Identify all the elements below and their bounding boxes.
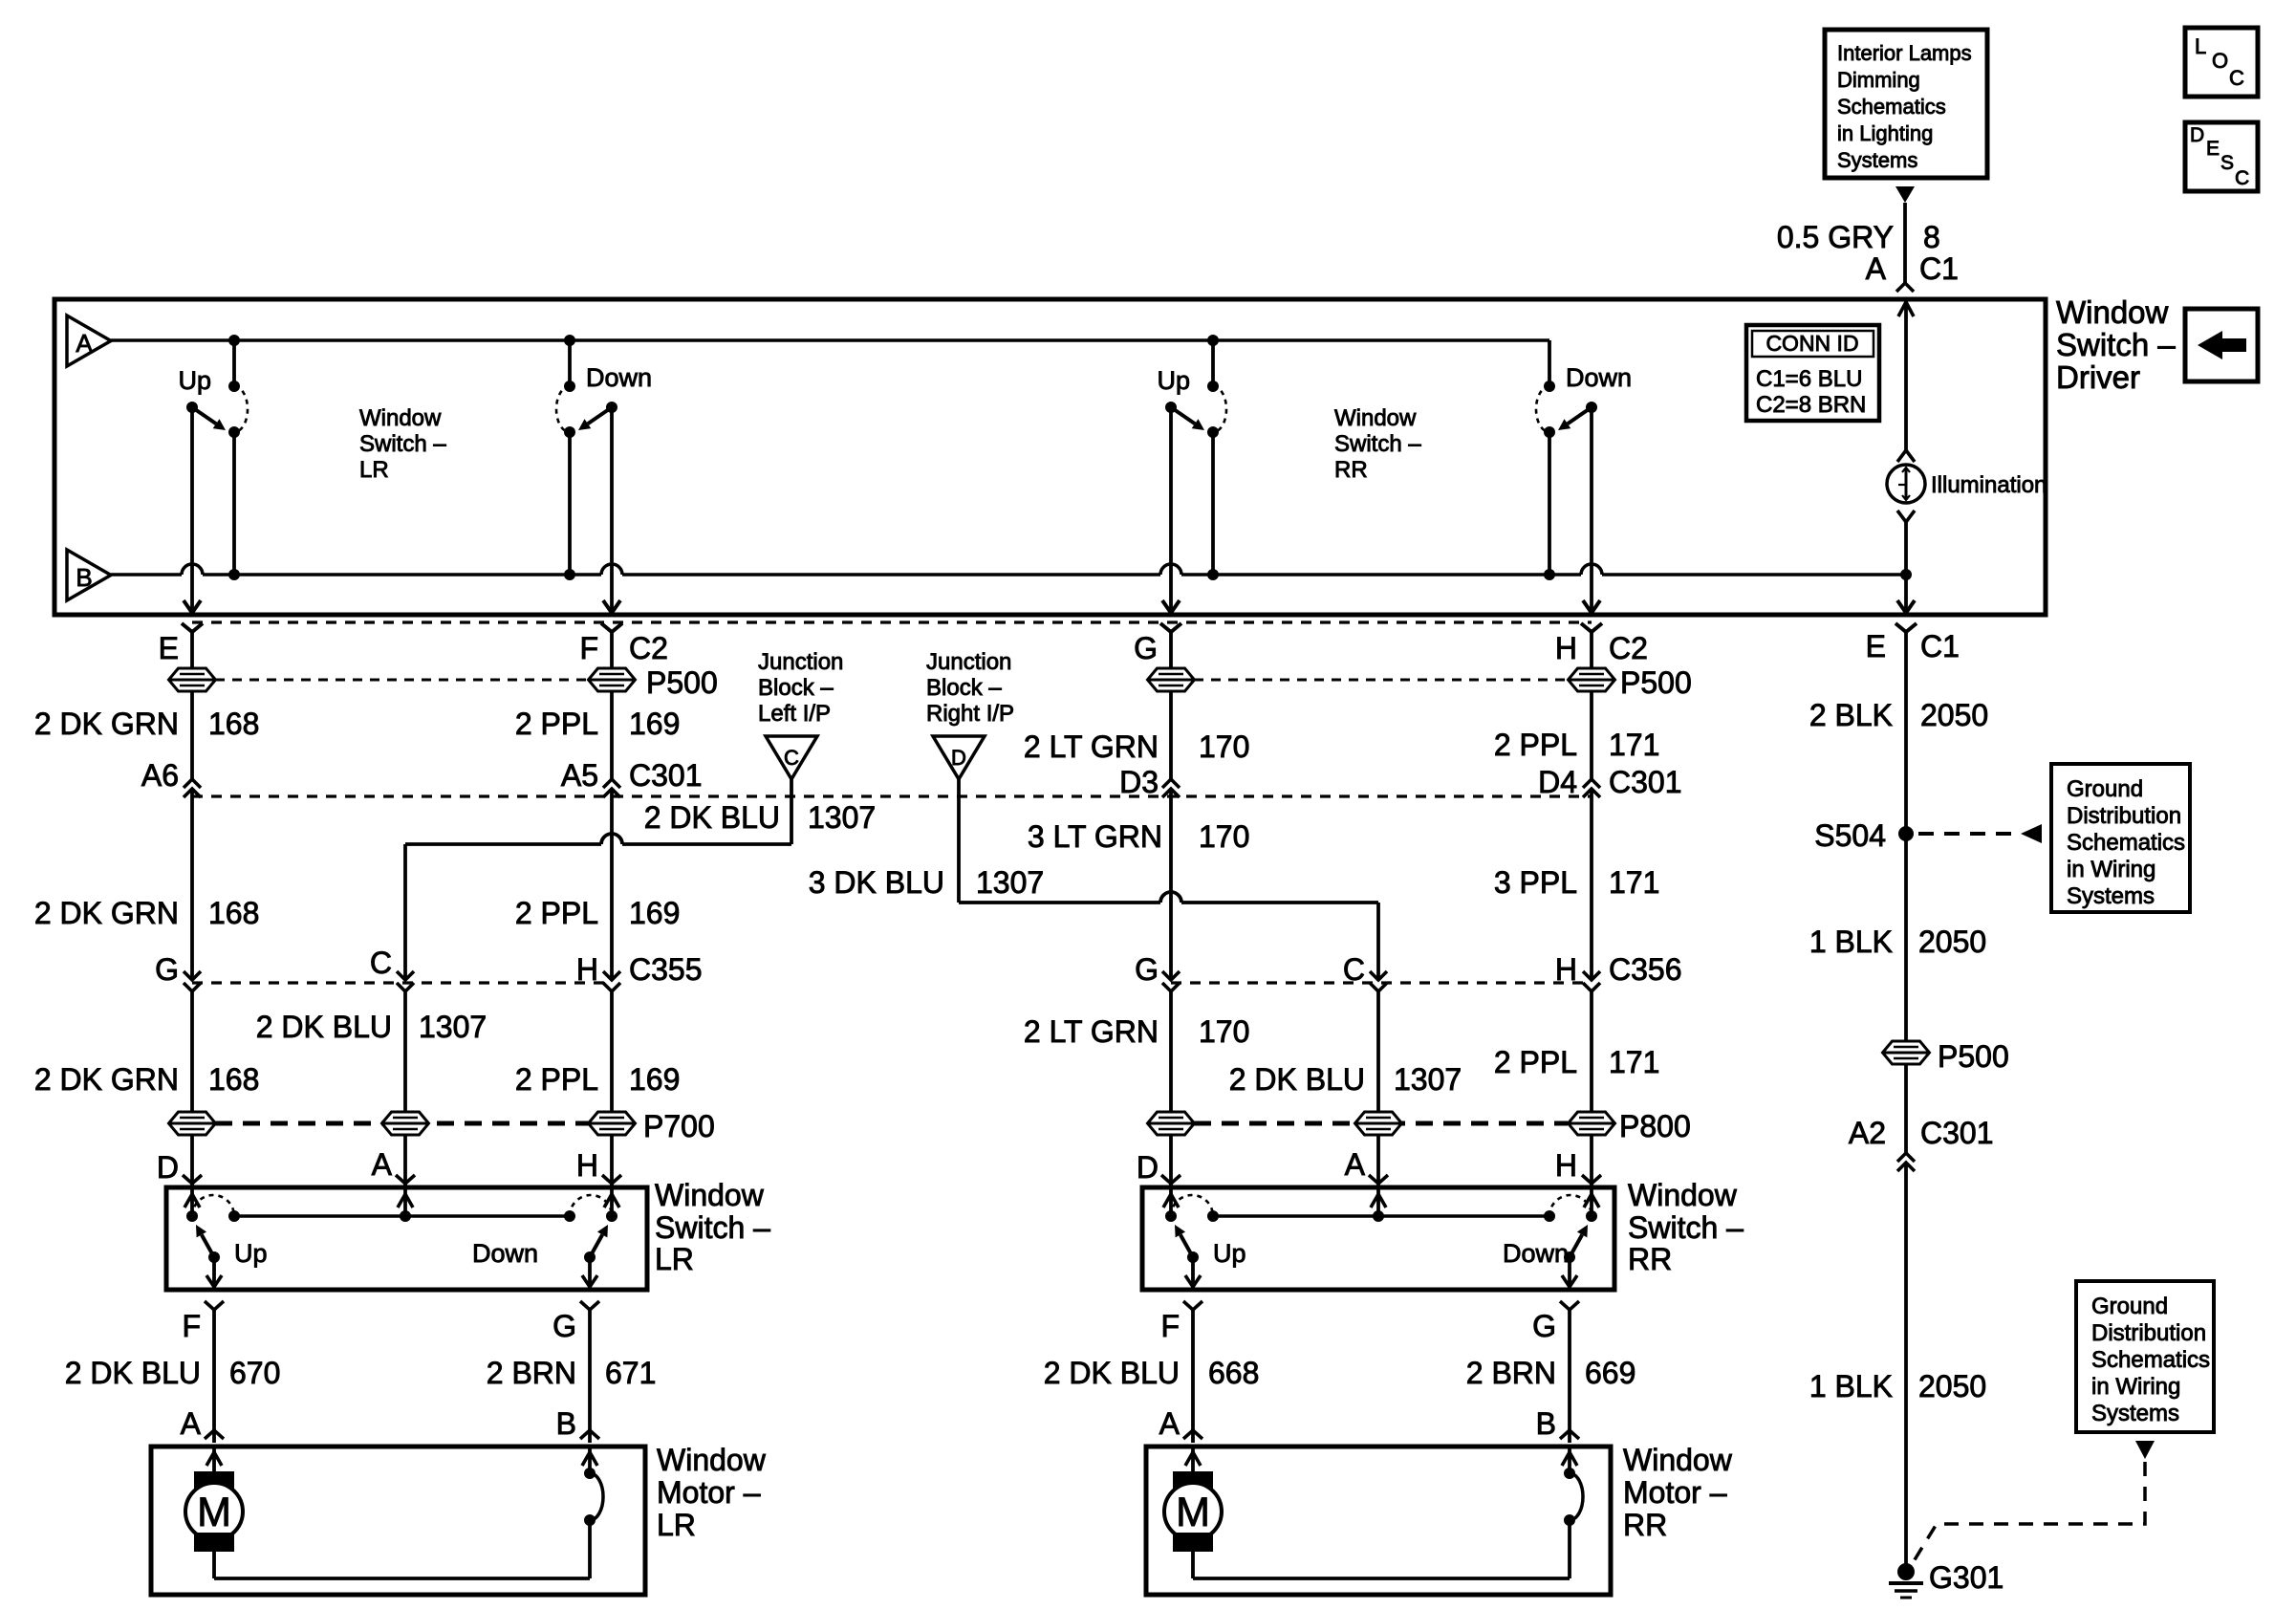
svg-text:A: A [1345,1147,1366,1182]
svg-text:C301: C301 [629,758,703,793]
svg-text:1 BLK: 1 BLK [1809,1369,1893,1403]
svg-text:F: F [1160,1309,1180,1343]
svg-text:3 DK BLU: 3 DK BLU [809,865,944,900]
svg-text:L: L [2195,34,2206,58]
svg-text:Switch –: Switch – [359,431,446,457]
svg-text:168: 168 [208,1062,259,1097]
svg-text:Switch –: Switch – [655,1210,770,1245]
svg-text:C1: C1 [1920,629,1960,664]
svg-text:Schematics: Schematics [1837,95,1946,119]
svg-text:F: F [182,1309,201,1343]
svg-text:171: 171 [1609,1045,1659,1079]
svg-text:Schematics: Schematics [2067,830,2185,856]
svg-text:Illumination: Illumination [1931,472,2047,498]
svg-text:B: B [76,563,92,592]
svg-text:A2: A2 [1849,1116,1886,1150]
svg-text:Ground: Ground [2067,776,2143,802]
svg-text:2 PPL: 2 PPL [515,707,598,741]
svg-text:2 DK BLU: 2 DK BLU [644,800,780,835]
svg-text:169: 169 [629,896,680,930]
svg-text:Junction: Junction [758,649,843,675]
svg-text:2 LT GRN: 2 LT GRN [1024,729,1159,764]
svg-text:G301: G301 [1929,1560,2004,1595]
svg-text:C: C [370,946,392,980]
svg-text:2 DK GRN: 2 DK GRN [34,896,179,930]
svg-text:168: 168 [208,707,259,741]
svg-text:0.5 GRY: 0.5 GRY [1777,220,1894,254]
svg-text:171: 171 [1609,865,1659,900]
svg-text:1307: 1307 [976,865,1044,900]
svg-text:Motor –: Motor – [657,1475,761,1510]
svg-text:168: 168 [208,896,259,930]
svg-text:Switch –: Switch – [1334,431,1421,457]
svg-text:Switch –: Switch – [1628,1210,1744,1245]
svg-text:H: H [1555,631,1577,665]
svg-text:C301: C301 [1920,1116,1994,1150]
svg-text:Left I/P: Left I/P [758,701,831,727]
svg-text:170: 170 [1199,819,1249,854]
svg-text:Distribution: Distribution [2091,1320,2206,1346]
svg-text:RR: RR [1623,1508,1667,1542]
svg-text:P800: P800 [1619,1109,1691,1143]
svg-text:A6: A6 [141,758,179,793]
svg-text:E: E [159,631,179,665]
svg-text:169: 169 [629,1062,680,1097]
svg-text:Window: Window [2056,294,2169,330]
svg-text:2050: 2050 [1918,925,1986,959]
svg-text:S: S [2220,152,2234,174]
svg-text:3 LT GRN: 3 LT GRN [1028,819,1162,854]
svg-text:G: G [1135,952,1159,987]
svg-text:2 DK BLU: 2 DK BLU [256,1010,392,1044]
svg-text:LR: LR [657,1508,696,1542]
svg-text:Up: Up [1213,1239,1246,1268]
svg-text:A5: A5 [561,758,598,793]
svg-text:C2: C2 [1609,631,1648,665]
svg-text:2 PPL: 2 PPL [1494,1045,1577,1079]
svg-text:Systems: Systems [2067,883,2155,909]
svg-text:C: C [2235,167,2249,189]
svg-text:D3: D3 [1119,765,1159,799]
svg-text:2 PPL: 2 PPL [515,896,598,930]
svg-text:Junction: Junction [926,649,1011,675]
svg-text:Right I/P: Right I/P [926,701,1014,727]
svg-text:C301: C301 [1609,765,1682,799]
svg-text:2 DK GRN: 2 DK GRN [34,707,179,741]
svg-text:170: 170 [1199,729,1249,764]
svg-text:Systems: Systems [2091,1401,2179,1426]
svg-text:Window: Window [1623,1443,1733,1477]
svg-text:2 PPL: 2 PPL [515,1062,598,1097]
svg-text:O: O [2212,49,2228,73]
svg-text:671: 671 [605,1356,656,1390]
svg-text:M: M [1176,1490,1210,1535]
svg-text:670: 670 [229,1356,280,1390]
svg-text:in Wiring: in Wiring [2067,857,2155,882]
svg-text:RR: RR [1334,457,1368,483]
svg-text:D: D [2190,124,2204,146]
svg-text:8: 8 [1923,220,1940,254]
svg-text:RR: RR [1628,1242,1672,1276]
svg-text:C356: C356 [1609,952,1682,987]
svg-text:LR: LR [655,1242,694,1276]
svg-text:Up: Up [1157,366,1190,395]
svg-text:H: H [1555,952,1577,987]
svg-text:Down: Down [586,363,652,392]
svg-text:Up: Up [234,1239,268,1268]
svg-text:C2=8 BRN: C2=8 BRN [1756,392,1866,418]
svg-text:1307: 1307 [419,1010,487,1044]
svg-text:Interior Lamps: Interior Lamps [1837,41,1972,65]
svg-text:170: 170 [1199,1014,1249,1049]
svg-text:668: 668 [1208,1356,1259,1390]
svg-text:Down: Down [1566,363,1632,392]
svg-text:P500: P500 [646,665,718,700]
svg-text:E: E [2206,138,2220,160]
svg-text:G: G [1532,1309,1556,1343]
svg-text:2 DK GRN: 2 DK GRN [34,1062,179,1097]
svg-text:C: C [1343,952,1365,987]
svg-text:D4: D4 [1538,765,1577,799]
svg-text:LR: LR [359,457,389,483]
svg-text:2 BRN: 2 BRN [487,1356,576,1390]
svg-text:Window: Window [657,1443,767,1477]
svg-text:in Wiring: in Wiring [2091,1374,2180,1400]
svg-text:F: F [579,631,598,665]
svg-text:Systems: Systems [1837,148,1917,172]
svg-text:B: B [556,1406,576,1441]
svg-text:Window: Window [1628,1178,1738,1212]
svg-text:D: D [1137,1150,1159,1185]
svg-text:E: E [1866,629,1886,664]
svg-text:1307: 1307 [808,800,876,835]
svg-text:Window: Window [655,1178,765,1212]
svg-text:2 BRN: 2 BRN [1466,1356,1556,1390]
svg-text:Down: Down [1503,1239,1569,1268]
svg-text:2 PPL: 2 PPL [1494,728,1577,762]
svg-text:C: C [784,746,799,770]
svg-text:in Lighting: in Lighting [1837,121,1933,145]
svg-text:A: A [76,329,93,358]
svg-text:Block –: Block – [758,675,834,701]
svg-text:169: 169 [629,707,680,741]
svg-text:2 DK BLU: 2 DK BLU [1229,1062,1365,1097]
svg-text:H: H [576,952,598,987]
svg-text:2 DK BLU: 2 DK BLU [65,1356,201,1390]
svg-text:2 BLK: 2 BLK [1809,698,1893,732]
svg-text:1 BLK: 1 BLK [1809,925,1893,959]
svg-text:A: A [1866,251,1887,286]
svg-text:H: H [576,1148,598,1183]
svg-text:Driver: Driver [2056,359,2140,395]
svg-text:3 PPL: 3 PPL [1494,865,1577,900]
svg-text:C2: C2 [629,631,668,665]
svg-text:Window: Window [1334,405,1417,431]
svg-text:C355: C355 [629,952,703,987]
svg-text:D: D [951,746,966,770]
svg-text:Down: Down [472,1239,538,1268]
svg-text:Motor –: Motor – [1623,1475,1727,1510]
svg-text:D: D [157,1150,179,1185]
svg-text:P700: P700 [643,1109,715,1143]
svg-text:2050: 2050 [1920,698,1988,732]
svg-text:2050: 2050 [1918,1369,1986,1403]
svg-text:Window: Window [359,405,442,431]
svg-text:Distribution: Distribution [2067,803,2181,829]
svg-text:G: G [1134,631,1158,665]
svg-text:H: H [1555,1148,1577,1183]
svg-text:Dimming: Dimming [1837,68,1920,92]
svg-text:P500: P500 [1620,665,1692,700]
svg-text:A: A [181,1406,202,1441]
svg-text:C: C [2229,66,2244,90]
svg-text:P500: P500 [1938,1039,2009,1074]
svg-text:G: G [155,952,179,987]
svg-text:171: 171 [1609,728,1659,762]
svg-text:A: A [372,1147,393,1182]
svg-text:Switch –: Switch – [2056,327,2176,362]
svg-text:CONN ID: CONN ID [1765,331,1858,356]
svg-text:A: A [1159,1406,1180,1441]
svg-text:M: M [197,1490,231,1535]
svg-text:2 DK BLU: 2 DK BLU [1044,1356,1180,1390]
svg-text:C1=6 BLU: C1=6 BLU [1756,366,1862,392]
svg-text:Block –: Block – [926,675,1002,701]
svg-text:Ground: Ground [2091,1294,2168,1319]
svg-text:G: G [552,1309,576,1343]
svg-text:S504: S504 [1814,818,1886,853]
svg-text:Up: Up [178,366,211,395]
svg-text:Schematics: Schematics [2091,1347,2210,1373]
svg-text:1307: 1307 [1394,1062,1462,1097]
svg-text:B: B [1536,1406,1556,1441]
svg-text:669: 669 [1585,1356,1635,1390]
svg-text:C1: C1 [1919,251,1959,286]
svg-text:2 LT GRN: 2 LT GRN [1024,1014,1159,1049]
